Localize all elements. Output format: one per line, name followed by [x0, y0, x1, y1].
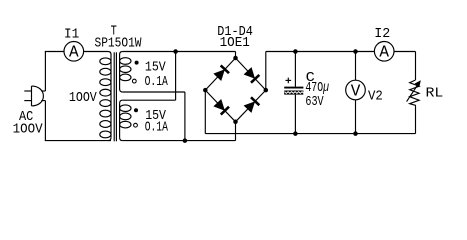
transformer T primary winding 100V: [100, 52, 111, 141]
wire: primary bottom lead: [45, 140, 111, 142]
diode D4 (bottom-right edge): [236, 90, 266, 122]
wire: top-left rail from plug riser to ammeter I1: [45, 51, 64, 53]
wire: bridge left riser (DC-): [204, 90, 206, 134]
wire: secondary 2 top lead: [123, 99, 176, 101]
plus sign of capacitor: [286, 79, 292, 81]
svg-text:1OOV: 1OOV: [13, 122, 43, 137]
node: capacitor top junction: [293, 49, 298, 54]
wire: riser from sec1 bottom lead down to AC bottom: [184, 92, 186, 141]
wire: rail from secondary 1 top lead to bridge top riser: [123, 51, 236, 53]
svg-text:V2: V2: [368, 90, 383, 105]
label AC 100V: [13, 110, 43, 137]
diode D1 (left-top edge): [205, 58, 235, 90]
terminal circle secondary 1: [132, 79, 136, 83]
wire: secondary 1 bottom lead to riser: [123, 91, 185, 93]
svg-text:RL: RL: [426, 87, 444, 102]
wire: DC- bottom rail: [205, 133, 415, 135]
ammeter I2: [374, 42, 394, 63]
voltmeter V2: [346, 52, 366, 134]
transformer secondary winding 1 (top, 15V 0.1A): [120, 52, 131, 93]
svg-text:1OOV: 1OOV: [69, 91, 97, 106]
node: V2 bottom junction: [353, 131, 358, 136]
node: bridge left corner: [203, 88, 208, 93]
wire: parallel riser (sec2 top to rail): [175, 52, 177, 101]
transformer core: [114, 52, 116, 141]
AC plug P1: [24, 86, 45, 106]
svg-text:O.1A: O.1A: [145, 75, 169, 90]
wire: secondary 2 bottom lead / AC bottom wire to bridge bottom riser: [123, 140, 236, 142]
node: capacitor bottom junction: [293, 131, 298, 136]
svg-text:A: A: [69, 44, 79, 63]
svg-text:15V: 15V: [145, 61, 166, 76]
wire: DC+ rail I2 to right corner, down to RL: [394, 51, 416, 53]
terminal circle secondary 2: [134, 123, 138, 127]
svg-text:I2: I2: [374, 27, 390, 42]
polarity dot secondary 1: [135, 61, 139, 65]
ammeter I1: [64, 42, 84, 63]
node: bridge top corner: [233, 56, 238, 61]
wire: rail from I1 to transformer primary: [84, 51, 108, 53]
polarity dot secondary 2: [134, 108, 138, 112]
load resistor RL (variable): [407, 80, 421, 106]
node: bridge bottom corner: [233, 120, 238, 125]
wire: bridge top riser: [235, 52, 237, 59]
svg-text:1OE1: 1OE1: [220, 36, 250, 51]
svg-text:A: A: [379, 44, 389, 63]
diode D2 (top-right edge): [236, 58, 266, 90]
svg-text:I1: I1: [64, 28, 79, 43]
node: AC bottom junction: [183, 138, 188, 143]
node: V2 top junction: [353, 49, 358, 54]
diode D3 (left-bottom edge): [205, 90, 235, 122]
node: bridge right corner: [264, 88, 269, 93]
node: rail / parallel riser junction: [173, 49, 178, 54]
capacitor C 470u 63V (electrolytic): [284, 52, 304, 134]
wire: bridge bottom riser (AC): [235, 122, 237, 141]
svg-text:V: V: [351, 82, 361, 101]
wire: DC+ top rail from bridge to I2: [266, 51, 375, 53]
transformer secondary winding 2 (bottom, 15V 0.1A): [120, 100, 131, 140]
wire: bridge right riser (DC+): [265, 52, 267, 91]
wire: plug riser left vertical: [44, 52, 46, 92]
svg-text:SP15O1W: SP15O1W: [95, 36, 143, 51]
svg-text:O.1A: O.1A: [145, 121, 169, 136]
svg-text:63V: 63V: [305, 95, 323, 110]
